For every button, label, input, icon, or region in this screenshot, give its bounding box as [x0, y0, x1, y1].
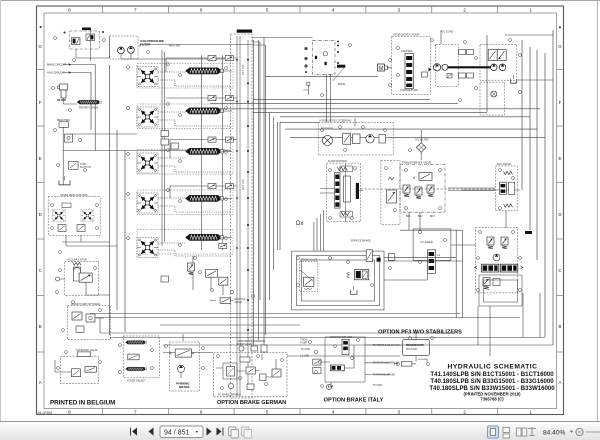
- joystick valve row 2: [137, 107, 158, 127]
- german brake valve cluster top: [475, 228, 532, 356]
- wire network: right-side vertical bus: [487, 30, 553, 345]
- engine M box: [378, 64, 392, 72]
- svg-text:T40.180SLPB S/N B33G15001 - B3: T40.180SLPB S/N B33G15001 - B33G16000: [430, 378, 554, 385]
- svg-text:STEER SELECT: STEER SELECT: [127, 380, 146, 383]
- main manifold dashed enclosure: [231, 30, 253, 399]
- pump control stack: [400, 50, 418, 92]
- svg-text:8: 8: [68, 409, 71, 414]
- bottom twin coil cluster: [123, 336, 159, 383]
- row ticks right: [557, 70, 564, 353]
- spool bank row 3: [186, 148, 224, 154]
- svg-text:LS LINE: LS LINE: [301, 356, 310, 358]
- nav next button: [207, 428, 212, 436]
- tank symbol top right: [511, 75, 517, 83]
- joystick valve row 4: [137, 193, 158, 213]
- spool bank row 5: [186, 234, 224, 240]
- stabilizer control cluster: [48, 193, 117, 246]
- svg-text:TILT CYL: TILT CYL: [241, 64, 245, 75]
- hydrostatic pump dashed box: [392, 33, 432, 95]
- single page mode icon (active): [488, 426, 499, 438]
- svg-text:OPTION PF3 W/O STABILIZERS: OPTION PF3 W/O STABILIZERS: [378, 329, 462, 335]
- svg-text:6: 6: [200, 7, 203, 12]
- svg-text:CYLINDER: CYLINDER: [420, 241, 433, 244]
- svg-text:D: D: [39, 212, 42, 217]
- wire network: lower long runs: [90, 314, 553, 357]
- main gear pumps: [433, 30, 491, 87]
- parking brake cluster: [169, 334, 199, 391]
- svg-text:LIFT CYL: LIFT CYL: [241, 178, 245, 190]
- svg-text:HYDROSTATIC PUMP: HYDROSTATIC PUMP: [393, 33, 420, 37]
- accumulator charge valve right: [495, 162, 517, 211]
- svg-text:PF3 TANK: PF3 TANK: [406, 348, 418, 351]
- svg-text:CONTROL: CONTROL: [401, 50, 413, 53]
- frame inner: [44, 13, 557, 409]
- svg-text:RESERVOIR: RESERVOIR: [406, 343, 424, 347]
- main circuit label: [47, 63, 71, 75]
- wire network: left verticals: [63, 65, 125, 335]
- inline valve pair row 3: [208, 137, 233, 142]
- wire network: centre vertical bundle: [252, 38, 378, 346]
- svg-text:C: C: [558, 268, 561, 273]
- svg-text:A/C COND: A/C COND: [441, 30, 454, 34]
- inline valve pair row 5: [219, 243, 227, 248]
- svg-text:E: E: [559, 156, 562, 161]
- svg-text:OIL FILTER: OIL FILTER: [415, 138, 429, 142]
- svg-text:A: A: [559, 380, 562, 385]
- title block: HYDRAULIC SCHEMATIC: [429, 363, 555, 401]
- spool bank row 1: [186, 68, 224, 74]
- svg-text:VALVE: VALVE: [234, 301, 242, 304]
- column numbers bottom: [68, 409, 532, 414]
- two-page mode icon: [517, 428, 527, 436]
- steering priority cluster: [318, 118, 393, 155]
- next-view icon: [242, 427, 252, 438]
- left chain: tank: [59, 176, 70, 185]
- cooler dashed box below pumps: [480, 82, 505, 115]
- svg-text:2: 2: [463, 7, 466, 12]
- svg-text:TO TANK: TO TANK: [301, 348, 311, 351]
- drive shaft: [448, 66, 491, 68]
- svg-text:6: 6: [200, 409, 203, 414]
- svg-text:2: 2: [463, 409, 466, 414]
- svg-text:FROM: FROM: [301, 340, 308, 342]
- left chain: suction valve: [69, 161, 91, 169]
- small coil bank lower-left: [77, 100, 101, 104]
- svg-text:TO WHEEL BRAKES: TO WHEEL BRAKES: [218, 394, 241, 397]
- filter diamond: [415, 130, 429, 160]
- svg-text:84 of 851: 84 of 851: [38, 411, 53, 415]
- trailer brake cluster: [400, 161, 445, 218]
- spool bank row 2: [186, 108, 224, 114]
- svg-text:D: D: [558, 212, 561, 217]
- svg-text:BRAKE PUMP UNIT: BRAKE PUMP UNIT: [331, 336, 353, 339]
- nav first-page button: [130, 428, 141, 436]
- svg-text:BK3: BK3: [430, 215, 435, 218]
- nav prev button: [149, 428, 154, 436]
- italy brake option cluster: [301, 336, 401, 389]
- flow divider tall cluster: [320, 159, 363, 222]
- svg-text:4: 4: [332, 7, 335, 12]
- left chain: check valve: [65, 134, 73, 142]
- svg-text:CHARGE PUMP: CHARGE PUMP: [400, 89, 418, 92]
- svg-text:BRAKE: BRAKE: [179, 385, 190, 389]
- shuttle relief with label: [210, 298, 246, 304]
- svg-text:7: 7: [134, 409, 137, 414]
- column ticks bottom: [102, 409, 497, 415]
- svg-text:ACC VALVE: ACC VALVE: [497, 162, 511, 166]
- svg-text:94 / 851: 94 / 851: [164, 430, 189, 437]
- steer cylinder cluster right: [413, 229, 451, 273]
- svg-text:1: 1: [529, 7, 532, 12]
- mid shuttle valves: [188, 256, 228, 295]
- margin star markers: [40, 26, 42, 28]
- joystick valve row 5: [137, 238, 158, 258]
- prev-view icon: [229, 427, 239, 438]
- svg-text:BREATHER: BREATHER: [57, 119, 70, 122]
- left filter stack: [57, 84, 77, 104]
- svg-text:BK2: BK2: [418, 215, 423, 218]
- brake valve right of divider: [381, 160, 400, 224]
- svg-text:PUMP: PUMP: [301, 342, 308, 344]
- svg-text:TO FRONT AXLE BRAKES: TO FRONT AXLE BRAKES: [373, 344, 401, 347]
- centre spool valve: [347, 269, 369, 279]
- svg-text:TO TANK: TO TANK: [373, 384, 383, 387]
- bottom-left pilot cluster: [55, 349, 99, 384]
- svg-text:TO PARKING BRAKE: TO PARKING BRAKE: [373, 374, 396, 377]
- svg-text:PEDAL: PEDAL: [338, 83, 347, 86]
- svg-text:T41.140SLPB S/N B1CT15001 - B1: T41.140SLPB S/N B1CT15001 - B1CT16000: [430, 371, 554, 378]
- svg-text:3: 3: [398, 409, 401, 414]
- svg-text:F: F: [39, 100, 42, 105]
- hatched label box: [337, 65, 345, 68]
- small valve below: [307, 82, 310, 85]
- svg-text:B: B: [39, 324, 42, 329]
- row ticks left: [37, 70, 45, 353]
- svg-text:PUMP VALVE: PUMP VALVE: [237, 343, 252, 346]
- centre tank: [351, 286, 358, 294]
- continuous mode icon: [503, 428, 510, 439]
- svg-text:OPTION BRAKE GERMAN: OPTION BRAKE GERMAN: [217, 400, 286, 406]
- svg-text:HYDRAULIC SCHEMATIC: HYDRAULIC SCHEMATIC: [448, 363, 538, 370]
- hand brake valve cluster: [64, 28, 110, 62]
- aux valve rects right of pump: [447, 50, 474, 79]
- svg-text:7: 7: [134, 7, 137, 12]
- svg-text:PRINTED IN BELGIUM: PRINTED IN BELGIUM: [50, 400, 115, 407]
- callout balloons: [51, 37, 522, 390]
- joystick valve row 1: [137, 67, 158, 87]
- svg-text:G: G: [558, 44, 562, 49]
- svg-text:4: 4: [332, 409, 335, 414]
- relief valve block top right: [488, 50, 506, 61]
- left chain: breather: [57, 119, 70, 128]
- page number field: [160, 426, 203, 438]
- pf3 reservoir cluster: [394, 330, 429, 366]
- svg-text:SERVICE BRAKE: SERVICE BRAKE: [351, 239, 371, 242]
- centre vertical valve: [351, 239, 395, 261]
- svg-text:BRAKE VALVE: BRAKE VALVE: [301, 259, 318, 262]
- nav last button: [217, 428, 224, 436]
- small pilot valves above rows 3-4: [161, 131, 179, 283]
- svg-text:AUX CIRCUIT: AUX CIRCUIT: [47, 71, 65, 75]
- centre brake pilot valve: [300, 259, 318, 292]
- row letters right: [558, 44, 562, 385]
- inline valve pair row 4: [208, 184, 233, 189]
- joystick valve row 3: [137, 153, 158, 173]
- svg-text:TRAILER BRAKE VALVE: TRAILER BRAKE VALVE: [402, 161, 431, 165]
- service brake routing verticals: [314, 189, 540, 338]
- centre service brake nested boxes: [292, 251, 384, 310]
- svg-text:STABILIZER CONTROL: STABILIZER CONTROL: [60, 193, 89, 197]
- zoom out control: [576, 428, 583, 435]
- svg-text:OPTION BRAKE ITALY: OPTION BRAKE ITALY: [324, 398, 384, 404]
- bottom toolbar: [0, 421, 600, 440]
- svg-text:BK1: BK1: [406, 215, 411, 218]
- svg-text:ACCUMULATOR: ACCUMULATOR: [67, 257, 87, 261]
- svg-text:HAND PUMP OPTIONAL: HAND PUMP OPTIONAL: [71, 302, 101, 306]
- svg-text:3: 3: [398, 7, 401, 12]
- svg-text:B: B: [559, 324, 562, 329]
- svg-text:MAX LINE: MAX LINE: [169, 44, 181, 47]
- svg-text:1: 1: [529, 409, 532, 414]
- german brake option cluster: [214, 340, 287, 397]
- svg-text:C: C: [39, 268, 42, 273]
- inline valve pair row 2: [208, 95, 233, 100]
- german spool bank pair: [475, 264, 523, 272]
- svg-text:E: E: [39, 156, 42, 161]
- svg-text:A: A: [39, 380, 42, 385]
- svg-text:LS: LS: [437, 254, 440, 257]
- svg-text:8: 8: [68, 7, 71, 12]
- svg-text:FLOW DIVIDER: FLOW DIVIDER: [328, 159, 347, 163]
- svg-text:PRIORITY VALVE: PRIORITY VALVE: [79, 107, 99, 110]
- wire network: long horizontal runs, upper half: [63, 65, 545, 251]
- steering pump circles right: [480, 44, 517, 80]
- row letters left: [38, 44, 42, 385]
- pilot supply pump cluster: [110, 36, 231, 59]
- zoom slider: [586, 431, 600, 433]
- scroll mode icon: [528, 427, 536, 436]
- svg-text:G: G: [38, 44, 42, 49]
- svg-text:84.40%: 84.40%: [543, 429, 566, 436]
- spool bank row 4: [186, 195, 224, 201]
- row feed wires joystick to spool banks: [158, 58, 237, 256]
- column numbers top: [68, 7, 532, 12]
- inline valve pair row 1: [208, 56, 233, 61]
- accumulator cluster left: [56, 257, 110, 295]
- svg-text:5: 5: [266, 7, 269, 12]
- row dashed enclosures: [137, 64, 233, 255]
- svg-text:FILTER: FILTER: [57, 98, 66, 102]
- svg-text:7395768 (C): 7395768 (C): [480, 397, 504, 402]
- servo control cluster: [303, 40, 346, 122]
- column ticks top: [102, 6, 497, 13]
- svg-text:5: 5: [266, 409, 269, 414]
- svg-text:HYDROSTATIC STEERING: HYDROSTATIC STEERING: [320, 118, 352, 122]
- left feed verticals to joystick column: [140, 45, 252, 251]
- svg-text:M: M: [379, 66, 383, 72]
- svg-text:SOLENOID VALVE: SOLENOID VALVE: [76, 349, 98, 352]
- svg-text:Dx: Dx: [296, 221, 303, 227]
- transmission valve cluster lower-left: [67, 302, 110, 340]
- svg-text:F: F: [559, 100, 562, 105]
